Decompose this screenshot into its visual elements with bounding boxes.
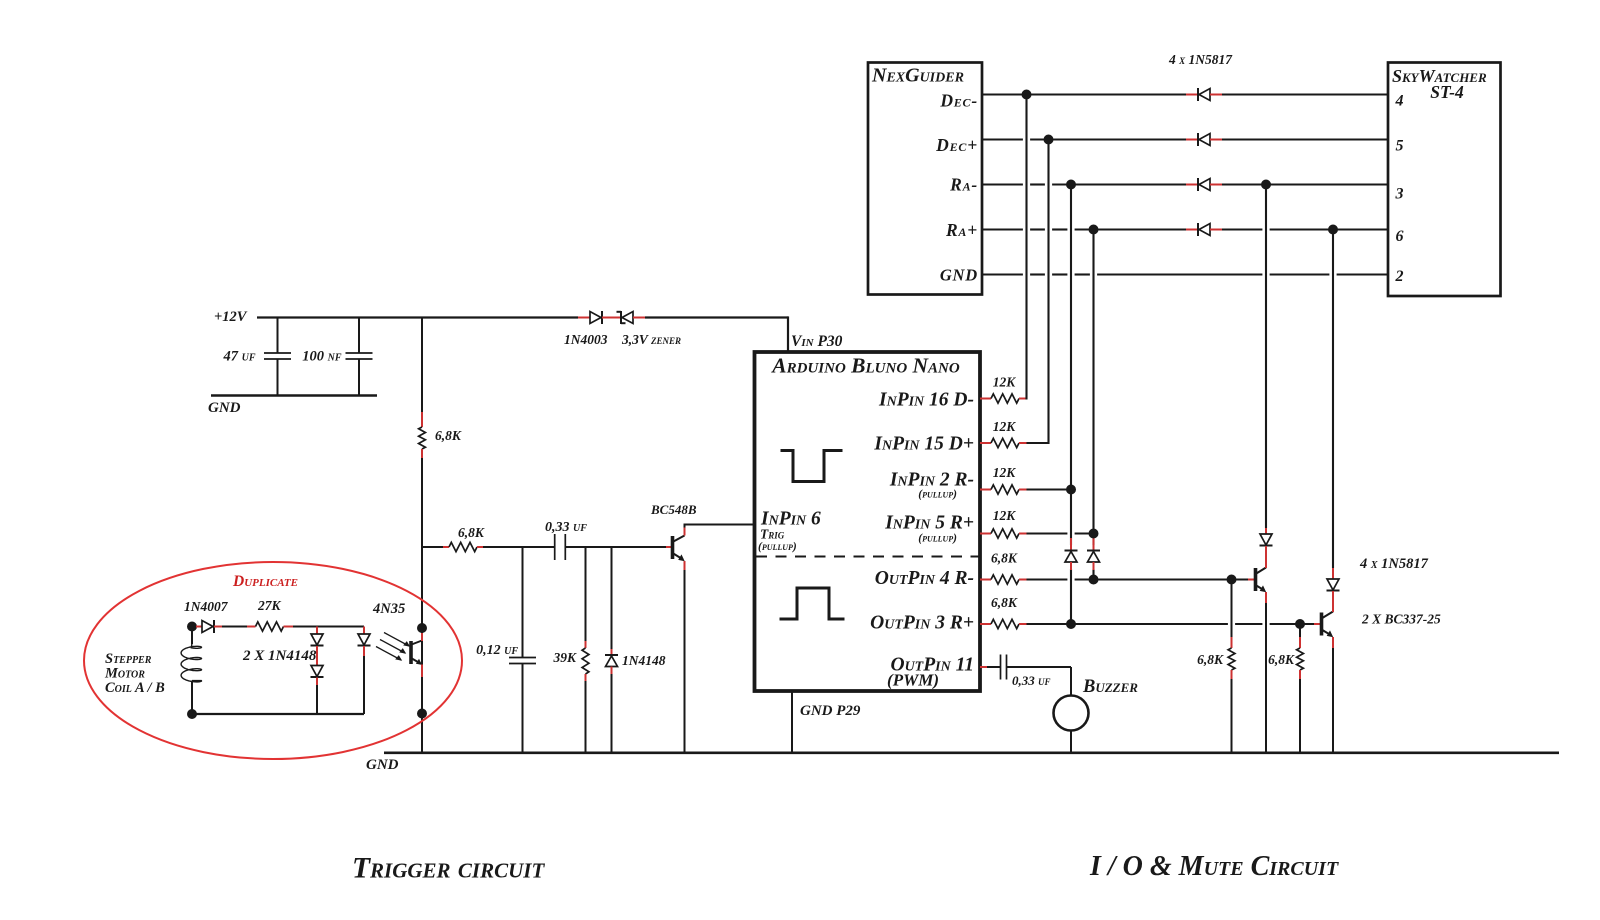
svg-text:6,8K: 6,8K <box>435 428 462 443</box>
svg-text:ST-4: ST-4 <box>1430 82 1464 102</box>
wire duplicate bottom <box>192 713 364 715</box>
wire Vin drop to Arduino <box>787 316 789 352</box>
svg-text:Dec+: Dec+ <box>935 135 978 155</box>
waveform positive pulse <box>780 588 845 619</box>
svg-text:Ra+: Ra+ <box>945 220 978 240</box>
svg-text:0,33 uf: 0,33 uf <box>1012 673 1051 688</box>
resistor R3 39K <box>585 546 587 641</box>
svg-text:3,3V zener: 3,3V zener <box>621 332 681 347</box>
node OutPin4 to 6,8K junction <box>1227 575 1237 585</box>
svg-text:4 x 1N5817: 4 x 1N5817 <box>1168 52 1233 67</box>
wire column RA+ <box>1092 230 1094 581</box>
IC U1 Arduino Bluno Nano box <box>755 352 981 691</box>
inductor coil A/B <box>191 627 193 645</box>
svg-text:4: 4 <box>1395 93 1404 110</box>
resistor R4 27K <box>222 626 247 628</box>
resistor R5 6,8K pulldown <box>1231 580 1233 638</box>
svg-text:InPin 15 D+: InPin 15 D+ <box>873 434 974 455</box>
wire RA- net <box>982 183 1023 185</box>
diode D14 1N5817 RA- <box>1186 184 1198 186</box>
svg-text:6,8K: 6,8K <box>991 551 1018 566</box>
transistor Q3 BC337-25 <box>1314 623 1320 625</box>
node OutPin3 junction col <box>1066 619 1076 629</box>
wire +12V rail <box>257 316 578 318</box>
wire GND net <box>982 273 1023 275</box>
transistor Q2 BC337-25 <box>1248 579 1254 581</box>
svg-text:I / O & Mute Circuit: I / O & Mute Circuit <box>1089 851 1339 882</box>
capacitor C3 0,33 UF <box>554 534 556 560</box>
svg-text:47 uf: 47 uf <box>222 349 255 365</box>
resistor R 12K/6,8K at OutPin3 <box>980 623 984 625</box>
diode D10 1N5817 (Q2 collector) <box>1265 185 1267 529</box>
svg-text:Trigger circuit: Trigger circuit <box>352 853 545 885</box>
diode D6 1N4148 (lower) <box>316 654 318 666</box>
svg-text:4 x 1N5817: 4 x 1N5817 <box>1359 556 1429 572</box>
resistor R 12K/6,8K at OutPin4 <box>980 579 984 581</box>
wire trigger main vertical <box>421 458 423 753</box>
node coil bottom junction <box>187 709 197 719</box>
svg-text:6: 6 <box>1396 228 1404 245</box>
wire OutPin3 R+ line <box>1027 623 1228 625</box>
svg-text:0,12 uf: 0,12 uf <box>476 643 518 658</box>
node 4N35 emitter junction <box>417 709 427 719</box>
svg-text:0,33 uf: 0,33 uf <box>545 520 587 535</box>
wire InPin2 to column <box>1027 489 1072 491</box>
svg-text:1N4003: 1N4003 <box>564 332 608 347</box>
node OutPin4 junction col <box>1089 575 1099 585</box>
diode D2 3,3V zener <box>602 317 621 319</box>
svg-text:27K: 27K <box>257 598 282 613</box>
svg-text:3: 3 <box>1395 186 1404 203</box>
capacitor C2 100 NF <box>358 318 360 353</box>
resistor R 12K/6,8K at InPin2 <box>980 489 984 491</box>
svg-text:12K: 12K <box>993 465 1017 480</box>
svg-text:12K: 12K <box>993 375 1017 390</box>
node 4N35 collector junction <box>417 623 427 633</box>
capacitor C5 0,33 UF (PWM) <box>980 666 987 668</box>
resistor R 12K/6,8K at InPin16 <box>980 398 984 400</box>
node DEC+ junction <box>1044 135 1054 145</box>
svg-text:(pullup): (pullup) <box>918 533 957 545</box>
svg-text:5: 5 <box>1396 138 1404 155</box>
waveform negative pulse <box>781 451 843 482</box>
node RA+ to Q3 junction <box>1328 225 1338 235</box>
node OutPin3 to 6,8K junction <box>1295 619 1305 629</box>
ground main rail <box>384 751 1559 754</box>
node InPin2 junction <box>1066 485 1076 495</box>
svg-text:6,8K: 6,8K <box>991 595 1018 610</box>
svg-text:Vin P30: Vin P30 <box>791 333 843 350</box>
svg-text:39K: 39K <box>552 650 577 665</box>
svg-text:Arduino Bluno Nano: Arduino Bluno Nano <box>770 354 960 378</box>
resistor R6 6,8K pulldown <box>1299 624 1301 637</box>
wire InPin5 to column <box>1027 533 1068 535</box>
svg-text:InPin 16 D-: InPin 16 D- <box>878 390 974 411</box>
svg-text:(pullup): (pullup) <box>918 489 957 501</box>
diode D8 1N5817 (RA- column) <box>1067 545 1075 569</box>
svg-text:2 X BC337-25: 2 X BC337-25 <box>1361 612 1441 627</box>
svg-text:(pullup): (pullup) <box>758 541 797 553</box>
diode D11 1N5817 (Q3 collector) <box>1332 230 1334 569</box>
node InPin5 junction <box>1089 529 1099 539</box>
capacitor C4 0,12 UF <box>522 546 524 657</box>
svg-text:Dec-: Dec- <box>939 91 978 111</box>
svg-text:6,8K: 6,8K <box>1268 652 1295 667</box>
svg-text:BC548B: BC548B <box>650 502 697 517</box>
diode D7 (opto LED leg) <box>363 627 365 635</box>
svg-text:1N4007: 1N4007 <box>184 599 229 614</box>
dashed separator <box>756 556 989 558</box>
wire column RA- <box>1070 185 1072 625</box>
wire RA+ net <box>982 228 1023 230</box>
wire Q1 collector to InPin6 <box>684 525 686 528</box>
resistor R2 6,8K (base feed) <box>422 546 443 548</box>
diode D3 1N4148 <box>611 546 613 649</box>
node coil top junction <box>187 622 197 632</box>
svg-text:GND: GND <box>366 757 399 773</box>
diode D4 1N4007 <box>192 626 196 628</box>
transistor Q1 BC548B <box>666 546 671 548</box>
resistor R1 6,8K (from +12V) <box>421 318 423 419</box>
wire OutPin4 R- line <box>1027 578 1068 580</box>
IC U3 NexGuider box <box>868 63 982 295</box>
svg-text:OutPin 3 R+: OutPin 3 R+ <box>870 613 974 634</box>
svg-text:InPin 5 R+: InPin 5 R+ <box>884 513 974 534</box>
ground local rail <box>211 394 377 396</box>
diode D9 1N5817 (RA+ column) <box>1090 545 1098 569</box>
node DEC- junction <box>1022 90 1032 100</box>
svg-text:Trig: Trig <box>760 527 785 542</box>
svg-text:Duplicate: Duplicate <box>232 573 298 590</box>
resistor R 12K/6,8K at InPin5 <box>980 533 984 535</box>
IC U4 SkyWatcher ST-4 box <box>1388 63 1501 297</box>
svg-text:Coil A / B: Coil A / B <box>105 680 165 696</box>
svg-text:InPin 2 R-: InPin 2 R- <box>889 470 974 491</box>
svg-text:GND: GND <box>940 266 978 285</box>
svg-text:GND P29: GND P29 <box>800 703 861 719</box>
svg-text:100 nf: 100 nf <box>302 349 342 365</box>
diode D5 1N4148 (upper) <box>316 627 318 635</box>
capacitor C1 47 UF <box>277 318 279 353</box>
svg-text:GND: GND <box>208 400 241 416</box>
svg-text:4N35: 4N35 <box>372 601 405 617</box>
wire column DEC+ <box>1047 140 1049 445</box>
svg-text:+12V: +12V <box>214 309 248 325</box>
svg-text:Ra-: Ra- <box>949 175 978 195</box>
resistor R 12K/6,8K at InPin15 <box>980 442 984 444</box>
svg-text:6,8K: 6,8K <box>1197 652 1224 667</box>
node RA+ junction <box>1089 225 1099 235</box>
svg-text:12K: 12K <box>993 419 1017 434</box>
svg-text:2 X 1N4148: 2 X 1N4148 <box>242 648 317 664</box>
wire column DEC- <box>1025 95 1027 400</box>
svg-text:1N4148: 1N4148 <box>622 653 666 668</box>
svg-text:NexGuider: NexGuider <box>871 65 964 87</box>
diode D1 1N4003 <box>578 317 590 319</box>
node RA- to Q2 junction <box>1261 180 1271 190</box>
svg-text:Buzzer: Buzzer <box>1082 677 1138 697</box>
diode D15 1N5817 RA+ <box>1186 229 1198 231</box>
svg-text:6,8K: 6,8K <box>458 525 485 540</box>
svg-text:2: 2 <box>1395 268 1404 285</box>
wire DEC+ net <box>982 138 1023 140</box>
diode D13 1N5817 DEC+ <box>1186 139 1198 141</box>
wire GND P29 <box>791 691 793 752</box>
svg-text:OutPin 4 R-: OutPin 4 R- <box>875 568 974 589</box>
svg-text:(PWM): (PWM) <box>887 671 939 690</box>
wire DEC- net <box>982 93 1186 95</box>
duplicate ellipse <box>84 562 462 759</box>
svg-text:12K: 12K <box>993 508 1017 523</box>
diode D12 1N5817 DEC- <box>1186 94 1198 96</box>
buzzer BZ1 <box>1070 667 1072 696</box>
node RA- junction <box>1066 180 1076 190</box>
